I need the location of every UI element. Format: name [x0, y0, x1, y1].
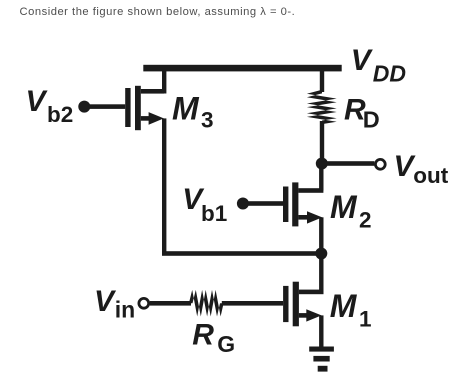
wire Vin to RG — [150, 301, 191, 306]
wire Vb1 to M2 gate — [243, 201, 283, 206]
terminal circle Vin — [139, 298, 149, 308]
transistor M2 top lead — [298, 188, 323, 193]
transistor M1 source arrow — [306, 309, 321, 321]
wire M1 source down to ground — [319, 315, 323, 347]
resistor RD lead top — [320, 71, 324, 92]
svg-text:b2: b2 — [47, 102, 73, 127]
wire RG to M1 gate — [222, 301, 283, 306]
transistor M3 top lead — [141, 89, 164, 94]
svg-text:b1: b1 — [201, 201, 227, 226]
transistor M1 gate bar — [283, 286, 288, 322]
svg-text:M: M — [172, 90, 200, 126]
wire M3 drain down — [162, 118, 166, 255]
wire Vout node to terminal — [322, 161, 375, 166]
svg-text:1: 1 — [359, 306, 372, 331]
VDD rail — [143, 65, 341, 72]
svg-text:V: V — [351, 44, 374, 77]
wire node A down to M1 drain — [319, 254, 323, 293]
ground bar 1 — [309, 347, 334, 352]
transistor M1 top lead — [299, 290, 324, 295]
svg-text:out: out — [413, 163, 448, 188]
node A dot — [315, 248, 327, 260]
wire bottom horizontal to node A — [162, 251, 322, 256]
ground bar 3 — [318, 366, 328, 372]
svg-text:3: 3 — [201, 108, 214, 133]
transistor M3 gate bar — [125, 88, 130, 127]
ground bar 2 — [313, 356, 329, 362]
svg-text:D: D — [363, 107, 380, 133]
transistor M3 bottom lead — [141, 116, 153, 121]
resistor RG zigzag — [189, 290, 224, 317]
svg-text:in: in — [115, 296, 135, 322]
node dot Vout — [316, 158, 328, 170]
node dot Vb1 — [237, 198, 249, 210]
wire M2 drain up to Vout node — [319, 164, 323, 191]
terminal circle Vout — [375, 159, 385, 169]
resistor RD zigzag — [307, 90, 337, 124]
wire VDD rail to M3 source — [162, 71, 166, 94]
resistor RD lead bottom — [320, 121, 324, 164]
transistor M1 bottom lead — [299, 313, 311, 318]
svg-text:2: 2 — [359, 208, 372, 233]
transistor M2 gate bar — [283, 187, 288, 223]
svg-text:DD: DD — [373, 60, 406, 86]
svg-text:V: V — [94, 285, 117, 318]
wire Vb2 to M3 gate — [84, 104, 125, 109]
svg-text:Consider the figure shown belo: Consider the figure shown below, assumin… — [20, 6, 296, 18]
svg-text:M: M — [330, 288, 358, 324]
svg-text:M: M — [330, 189, 358, 225]
transistor M2 bottom lead — [298, 215, 310, 220]
transistor M3 channel bar — [135, 86, 141, 130]
svg-text:V: V — [26, 85, 49, 118]
wire M2 source down to node A — [319, 217, 323, 255]
node dot Vb2 — [78, 101, 90, 113]
transistor M3 source arrow — [149, 112, 164, 125]
svg-text:R: R — [192, 318, 214, 351]
transistor M2 channel bar — [292, 182, 298, 226]
transistor M2 source arrow — [307, 211, 322, 223]
transistor M1 channel bar — [293, 282, 299, 327]
svg-text:G: G — [217, 331, 235, 357]
